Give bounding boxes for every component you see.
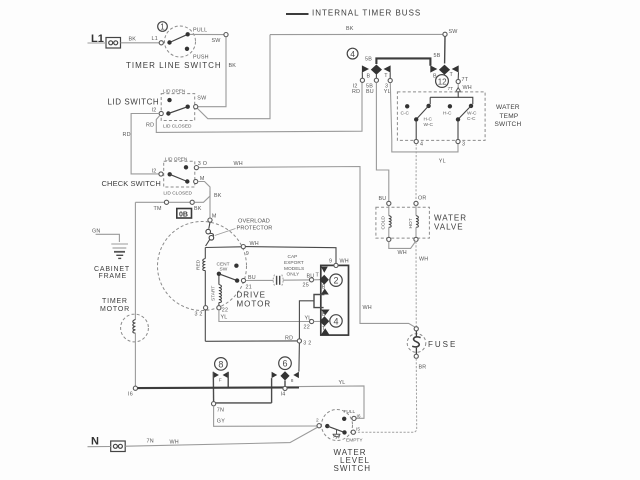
svg-text:SWITCH: SWITCH	[495, 121, 522, 128]
wire BR fuse to water level switch	[356, 358, 417, 432]
contact PUSH	[185, 47, 189, 51]
terminal I2	[159, 111, 163, 115]
circled 4	[347, 48, 358, 59]
svg-text:INTERNAL TIMER BUSS: INTERNAL TIMER BUSS	[312, 8, 421, 17]
contact left lower	[414, 117, 418, 121]
wire sail right down to bus	[227, 372, 229, 388]
svg-text:BK: BK	[129, 37, 137, 43]
svg-text:WATER: WATER	[496, 104, 520, 111]
tap wire to RD node	[299, 301, 314, 339]
wire from SW node down	[444, 36, 446, 63]
drive motor terminal M	[208, 218, 212, 222]
top buss wire BK to timer switch 12	[270, 33, 443, 35]
svg-text:BU: BU	[379, 196, 387, 202]
wire	[457, 84, 459, 88]
terminal BU	[387, 201, 391, 205]
svg-text:4: 4	[420, 142, 423, 148]
svg-text:I4: I4	[281, 392, 286, 398]
svg-text:B: B	[367, 74, 371, 80]
sail left	[430, 65, 437, 72]
wire TM timer motor jumper	[135, 201, 164, 203]
svg-text:4: 4	[334, 316, 339, 326]
node SW top right	[443, 32, 447, 36]
wire YL bus to water level switch I6	[299, 386, 364, 418]
node BU 21	[241, 278, 245, 282]
svg-text:7N: 7N	[147, 439, 154, 445]
svg-text:M: M	[212, 214, 217, 220]
wire to SW node	[190, 33, 224, 35]
svg-text:25: 25	[303, 283, 309, 289]
jog wire switch2 to switch4	[314, 295, 324, 308]
circled 12	[436, 75, 449, 88]
contact right lower	[456, 117, 460, 121]
terminal 9 WH node	[334, 263, 338, 267]
svg-text:FRAME: FRAME	[99, 273, 128, 280]
svg-text:N: N	[91, 436, 99, 448]
circled 1	[158, 22, 168, 32]
svg-text:7T: 7T	[448, 86, 454, 92]
pivot terminal	[317, 424, 321, 428]
node 22 YL	[310, 319, 314, 323]
wire GY to water level switch	[214, 406, 317, 427]
fuse bottom terminal	[414, 354, 418, 358]
stubs to terminals	[361, 72, 363, 78]
node I6	[133, 386, 137, 390]
svg-text:SW: SW	[220, 267, 228, 273]
svg-text:RED: RED	[196, 259, 202, 270]
svg-text:SWITCH: SWITCH	[334, 464, 372, 473]
svg-text:FULL: FULL	[344, 409, 356, 415]
wire sail left down to U wire	[271, 378, 273, 403]
contact PULL	[186, 32, 190, 36]
legend: internal timer buss line	[286, 13, 309, 15]
svg-text:OR: OR	[418, 196, 427, 202]
wire WH to switch 2 block	[246, 247, 337, 264]
contact EMPTY	[342, 430, 346, 434]
buss 5B thick	[376, 58, 430, 65]
svg-text:BR: BR	[419, 365, 427, 371]
svg-text:3 2: 3 2	[195, 311, 203, 317]
switch blade	[327, 426, 344, 432]
check switch	[102, 156, 208, 196]
svg-text:T: T	[316, 273, 320, 279]
svg-text:5B: 5B	[434, 53, 441, 59]
svg-text:BK: BK	[194, 206, 202, 212]
switch 4 diamond	[320, 316, 330, 326]
fuse top terminal	[414, 327, 418, 331]
switch 2 sail lower	[321, 289, 329, 295]
terminal I2	[159, 172, 163, 176]
centrifugal switch	[217, 262, 240, 283]
svg-text:B: B	[322, 284, 326, 290]
water valve	[376, 201, 467, 241]
svg-text:BU: BU	[366, 89, 374, 95]
svg-text:F: F	[219, 378, 222, 384]
circled 4	[330, 315, 342, 327]
svg-text:WH: WH	[340, 259, 349, 265]
node 25 BU	[309, 278, 313, 282]
svg-text:WH: WH	[363, 305, 372, 311]
water valve dashed outline	[376, 207, 430, 238]
svg-text:RD: RD	[146, 123, 154, 129]
svg-text:I5: I5	[356, 427, 360, 433]
svg-text:WH: WH	[234, 161, 243, 167]
cold solenoid	[388, 206, 390, 216]
svg-text:H-C: H-C	[424, 117, 433, 123]
svg-text:2: 2	[334, 276, 339, 286]
svg-text:HOT: HOT	[408, 218, 414, 228]
timer line switch dashed outline	[165, 26, 196, 57]
circled 8	[215, 358, 228, 371]
wire to terminal 3	[457, 122, 459, 140]
svg-text:MODELS: MODELS	[284, 266, 304, 272]
svg-text:CABINET: CABINET	[94, 266, 130, 273]
wire RD lid switch I2 down to timer terminal I2 RD buss	[156, 83, 362, 133]
switch 4 sail lower	[321, 328, 330, 335]
svg-text:CHECK SWITCH: CHECK SWITCH	[102, 179, 161, 188]
wire diamond to bus node I4	[284, 381, 286, 387]
connector 0B box	[177, 209, 192, 219]
neutral bus thick	[138, 386, 300, 389]
diamond	[280, 371, 289, 380]
wire BU cent switch to capacitor	[246, 279, 274, 281]
drive motor start winding	[219, 276, 222, 306]
svg-text:YL: YL	[221, 315, 228, 321]
svg-text:22: 22	[304, 325, 310, 331]
contact H-C	[448, 104, 452, 108]
contact pivot left	[426, 104, 430, 108]
timer switch 8 group	[213, 358, 228, 402]
svg-text:START: START	[211, 286, 217, 301]
wire BK lid switch SW up to top buss	[198, 35, 271, 119]
fuse dashed outline	[407, 334, 426, 353]
terminal cold bottom	[387, 237, 391, 241]
svg-text:WH: WH	[419, 257, 428, 263]
node SW	[224, 33, 228, 37]
timer switch 6 group	[272, 357, 299, 403]
timer switch 12 group	[430, 36, 472, 92]
wire YL start winding to switch 4	[219, 310, 310, 322]
water temp switch dashed outline	[397, 92, 485, 140]
svg-text:I6: I6	[357, 414, 361, 420]
svg-text:RD: RD	[352, 89, 360, 95]
svg-text:WH: WH	[398, 250, 407, 256]
svg-text:ONLY: ONLY	[287, 272, 301, 278]
terminal block L1	[106, 38, 121, 49]
contact LID OPEN	[184, 165, 188, 169]
timer motor coil	[133, 320, 136, 334]
svg-text:9: 9	[246, 251, 249, 257]
connector node 32	[297, 339, 301, 343]
wire 7N WH neutral to water level switch	[125, 427, 317, 446]
timer switch 4 group top	[347, 48, 440, 95]
internal feed wire	[430, 92, 458, 98]
svg-text:BK: BK	[214, 193, 222, 199]
switch blade	[219, 274, 237, 281]
svg-text:T: T	[384, 73, 388, 79]
svg-text:SW: SW	[197, 96, 207, 102]
U wire switch 8 F to switch 6	[214, 402, 272, 404]
svg-text:YL: YL	[384, 89, 391, 95]
blade left	[416, 106, 428, 120]
connector node 32	[204, 306, 208, 310]
svg-text:DRIVE: DRIVE	[237, 291, 266, 300]
wire OR water temp 4 to water valve HOT	[415, 144, 417, 202]
node 22	[217, 306, 221, 310]
wire to diamond	[314, 279, 320, 281]
contact pivot right	[469, 104, 473, 108]
svg-text:BK: BK	[229, 63, 237, 69]
svg-text:COLD: COLD	[381, 216, 387, 230]
connector node	[190, 200, 194, 204]
sail right	[384, 65, 391, 72]
switch 2 diamond	[320, 275, 329, 285]
svg-text:LID SWITCH: LID SWITCH	[108, 98, 160, 107]
sail right	[223, 372, 229, 378]
contact upper	[234, 264, 238, 268]
terminal OR	[414, 201, 418, 205]
svg-text:I2: I2	[152, 108, 157, 114]
svg-text:PUSH: PUSH	[193, 55, 209, 61]
fuse element	[415, 331, 417, 337]
svg-text:LID CLOSED: LID CLOSED	[163, 191, 192, 197]
lid switch	[108, 89, 208, 130]
terminal I5	[351, 430, 355, 434]
svg-text:C-C: C-C	[467, 116, 476, 122]
svg-text:9: 9	[329, 259, 332, 265]
contact C-C	[405, 104, 409, 108]
wire WH motor node 9 top	[205, 246, 241, 249]
wire RD lid switch I2 to check switch I2	[131, 114, 159, 174]
svg-text:PULL: PULL	[193, 28, 207, 34]
ground cabinet frame	[111, 244, 128, 258]
circled 6	[279, 357, 292, 370]
svg-text:WH: WH	[463, 85, 472, 91]
svg-text:SW: SW	[212, 38, 222, 44]
svg-text:5B: 5B	[365, 57, 372, 63]
connector node 7N	[212, 402, 216, 406]
fuse	[407, 327, 457, 359]
pin into water temp switch	[456, 88, 461, 92]
leader line	[215, 229, 236, 236]
terminal block N	[111, 441, 126, 452]
motor switch block 2 and 4	[299, 263, 348, 339]
svg-text:EMPTY: EMPTY	[346, 438, 363, 444]
svg-text:CAP: CAP	[288, 254, 298, 260]
svg-text:BU: BU	[307, 274, 315, 280]
svg-text:YL: YL	[305, 316, 312, 322]
terminal 3	[456, 139, 460, 143]
svg-text:WH: WH	[250, 241, 259, 247]
pressure dome	[333, 430, 341, 437]
wire timer motor feed	[134, 202, 136, 319]
wire to diamond	[314, 320, 320, 322]
pivot contact	[217, 272, 221, 276]
svg-text:7T: 7T	[462, 77, 469, 83]
svg-text:YL: YL	[439, 158, 446, 164]
svg-text:T: T	[450, 72, 454, 78]
wire down to motor bottom	[204, 310, 206, 342]
svg-text:T: T	[322, 326, 326, 332]
wire RD to timer switch 6	[298, 343, 301, 372]
svg-text:TIMER LINE SWITCH: TIMER LINE SWITCH	[126, 61, 222, 70]
wire sail left down to node 7N	[212, 372, 214, 402]
wire WH valve join	[389, 241, 416, 249]
svg-text:3 2: 3 2	[303, 341, 311, 347]
water temp switch	[397, 92, 521, 148]
diamond	[439, 65, 450, 75]
contact LID OPEN	[167, 98, 171, 102]
node I4 on bus	[283, 386, 287, 390]
pivot contact	[325, 424, 329, 428]
terminal 7T	[456, 79, 460, 83]
wire	[169, 201, 190, 203]
pivot contact	[167, 40, 171, 44]
svg-text:YL: YL	[339, 380, 346, 386]
svg-text:8: 8	[218, 359, 223, 369]
lid switch dashed outline	[161, 94, 195, 121]
svg-text:SW: SW	[449, 29, 459, 35]
wire WH check switch 3O to fuse	[199, 167, 416, 328]
svg-text:22: 22	[222, 308, 228, 314]
terminal I2 RD	[360, 78, 364, 82]
pivot contact	[168, 172, 172, 176]
svg-text:VALVE: VALVE	[434, 222, 464, 231]
check switch dashed outline	[164, 161, 195, 187]
svg-text:0B: 0B	[179, 212, 188, 219]
svg-text:3 O: 3 O	[198, 161, 207, 167]
drive motor run winding RED	[203, 248, 206, 306]
wire BU capacitor to switch 2	[283, 279, 310, 281]
svg-text:6: 6	[283, 359, 288, 369]
terminal 3 YL	[388, 78, 392, 82]
svg-text:LID OPEN: LID OPEN	[163, 89, 186, 95]
svg-text:B: B	[322, 312, 326, 318]
svg-text:L1: L1	[152, 36, 158, 42]
circled 2	[330, 274, 342, 286]
svg-text:1: 1	[160, 23, 165, 32]
svg-text:TIMER: TIMER	[102, 298, 128, 305]
block outline	[321, 265, 349, 335]
svg-text:4: 4	[350, 49, 355, 59]
terminal L1 node	[159, 41, 163, 45]
wire YL to water temp switch 3	[390, 83, 458, 152]
node SW	[194, 105, 198, 109]
wire sail to 7T	[457, 72, 459, 79]
terminal 4	[414, 139, 418, 143]
svg-text:C-C: C-C	[401, 111, 410, 117]
switch blade	[168, 107, 187, 114]
switch blade	[170, 174, 188, 181]
contact M	[185, 179, 189, 183]
svg-text:GN: GN	[92, 229, 101, 235]
terminal M	[194, 179, 198, 183]
svg-text:2: 2	[316, 418, 319, 424]
svg-text:LID OPEN: LID OPEN	[165, 156, 188, 162]
svg-text:WH: WH	[170, 440, 179, 446]
wire stub left of N	[88, 446, 111, 448]
svg-text:FUSE: FUSE	[428, 340, 457, 349]
diamond	[371, 65, 382, 75]
water level switch dashed outline	[322, 410, 353, 441]
sail right	[452, 65, 459, 72]
svg-text:H-C: H-C	[443, 111, 452, 117]
sail left	[272, 372, 278, 378]
connector node	[164, 200, 168, 204]
capacitor	[273, 275, 283, 286]
sail left	[213, 372, 219, 378]
svg-text:EXPORT: EXPORT	[284, 260, 304, 266]
svg-text:RD: RD	[123, 132, 131, 138]
terminal hot bottom	[414, 237, 418, 241]
svg-text:I2: I2	[152, 169, 157, 175]
terminal I6	[352, 416, 356, 420]
timer motor dashed outline	[121, 314, 149, 342]
svg-text:8: 8	[291, 378, 294, 384]
svg-text:BK: BK	[346, 26, 354, 32]
svg-text:W-C: W-C	[424, 122, 434, 128]
svg-text:GY: GY	[217, 419, 225, 425]
wire BK check switch M to drive motor M	[198, 182, 210, 218]
wire BK to motor M node	[194, 191, 210, 202]
svg-text:I6: I6	[128, 392, 133, 398]
wire stub left of L1	[88, 42, 107, 44]
svg-text:PROTECTOR: PROTECTOR	[237, 225, 273, 231]
svg-text:LID CLOSED: LID CLOSED	[163, 124, 192, 130]
contact FULL	[342, 417, 346, 421]
svg-text:7N: 7N	[217, 408, 224, 414]
svg-text:MOTOR: MOTOR	[237, 300, 272, 309]
switch 4 sail upper	[321, 310, 330, 316]
water level switch	[316, 409, 371, 473]
sail left	[362, 65, 369, 72]
wire BK L1 to timer line switch	[121, 42, 160, 44]
drive motor dashed outline	[158, 222, 247, 311]
svg-text:OVERLOAD: OVERLOAD	[238, 219, 270, 225]
contact LID CLOSED	[186, 105, 190, 109]
wire WH valve to fuse	[415, 242, 417, 327]
svg-text:MOTOR: MOTOR	[100, 306, 130, 313]
svg-text:3: 3	[462, 142, 465, 148]
connector node 9	[241, 245, 245, 249]
terminal 5B BU	[374, 78, 378, 82]
svg-text:W-C: W-C	[467, 111, 477, 117]
svg-text:12: 12	[438, 77, 447, 86]
pivot contact	[166, 111, 170, 115]
sail right	[293, 372, 299, 378]
terminal 3O	[194, 166, 198, 170]
contact lower	[235, 278, 239, 282]
switch blade	[170, 34, 188, 42]
overload protector	[206, 222, 214, 246]
hot solenoid	[415, 206, 417, 216]
switch 2 sail upper	[321, 267, 328, 273]
timer line switch	[126, 22, 228, 70]
wire to terminal 4	[415, 122, 417, 140]
wire RD motor bottom	[205, 340, 297, 342]
svg-text:RD: RD	[285, 336, 293, 342]
svg-text:TM: TM	[154, 206, 162, 212]
wire timer motor to neutral bus	[134, 333, 136, 386]
wire BK timer line switch SW down to lid switch SW	[198, 37, 226, 107]
wire BU to water valve	[376, 82, 388, 201]
svg-text:TEMP: TEMP	[500, 113, 519, 120]
svg-text:WATER: WATER	[434, 214, 467, 223]
wire GN to ground	[96, 234, 120, 242]
blade right	[458, 106, 471, 120]
